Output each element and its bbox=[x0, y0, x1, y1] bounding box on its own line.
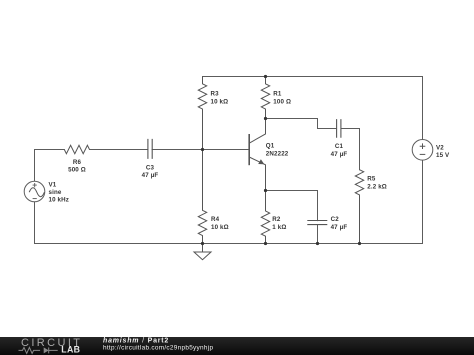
svg-text:2N2222: 2N2222 bbox=[266, 151, 289, 158]
footer text bbox=[103, 337, 213, 351]
svg-text:47 µF: 47 µF bbox=[331, 151, 348, 158]
voltage source V1 bbox=[24, 181, 69, 203]
wire collector node to C1 bbox=[266, 119, 337, 129]
svg-text:R4: R4 bbox=[211, 216, 220, 223]
svg-text:10 kHz: 10 kHz bbox=[49, 197, 70, 204]
svg-text:10 kΩ: 10 kΩ bbox=[211, 224, 229, 231]
node: C2 bottom bbox=[316, 242, 319, 245]
svg-text:V2: V2 bbox=[436, 145, 444, 152]
svg-text:C1: C1 bbox=[335, 143, 344, 150]
node: collector junction bbox=[264, 117, 267, 120]
wire right rail top (V2 top lead) bbox=[422, 77, 424, 140]
node: R1 top on rail bbox=[264, 75, 267, 78]
voltage source V2 bbox=[412, 140, 450, 161]
transistor Q1 bbox=[249, 119, 289, 191]
resistor R3 bbox=[198, 77, 228, 150]
wire input to R6 bbox=[35, 149, 65, 151]
node: ground junction bbox=[201, 242, 204, 245]
wire R6 to C3 bbox=[90, 149, 148, 151]
svg-text:R5: R5 bbox=[367, 176, 376, 183]
wire C3 to Q1 base bbox=[152, 149, 249, 151]
svg-text:2.2 kΩ: 2.2 kΩ bbox=[367, 183, 387, 190]
node: emitter junction bbox=[264, 189, 267, 192]
svg-text:Q1: Q1 bbox=[266, 142, 275, 149]
CircuitLab logo bbox=[19, 337, 83, 355]
wire left rail (V1 top lead) bbox=[34, 150, 36, 182]
svg-text:47 µF: 47 µF bbox=[142, 172, 159, 179]
node: base junction bbox=[201, 148, 204, 151]
svg-text:15 V: 15 V bbox=[436, 152, 450, 159]
node: R2 bottom bbox=[264, 242, 267, 245]
svg-text:V1: V1 bbox=[49, 182, 57, 189]
wire V1 bottom lead bbox=[34, 202, 36, 244]
svg-text:sine: sine bbox=[49, 189, 62, 196]
wire C1 to R5 bbox=[341, 129, 360, 170]
resistor R4 bbox=[198, 150, 228, 244]
capacitor C3 bbox=[142, 139, 159, 179]
wire emitter node to C2 bbox=[266, 191, 318, 221]
footer bar bbox=[0, 337, 474, 355]
svg-text:100 Ω: 100 Ω bbox=[273, 98, 291, 105]
svg-text:R1: R1 bbox=[273, 90, 282, 97]
svg-text:C3: C3 bbox=[146, 165, 155, 172]
wire right rail bottom (V2 bottom lead) bbox=[422, 160, 424, 243]
svg-text:R2: R2 bbox=[272, 216, 281, 223]
svg-text:R3: R3 bbox=[211, 90, 220, 97]
svg-text:500 Ω: 500 Ω bbox=[68, 167, 86, 174]
svg-text:C2: C2 bbox=[331, 216, 340, 223]
svg-text:47 µF: 47 µF bbox=[331, 224, 348, 231]
wire bottom rail bbox=[35, 243, 423, 245]
wire C2 bottom lead bbox=[317, 225, 319, 244]
resistor R1 bbox=[261, 77, 291, 119]
svg-text:R6: R6 bbox=[73, 159, 82, 166]
svg-text:http://circuitlab.com/c29npb5y: http://circuitlab.com/c29npb5yynhjp bbox=[103, 344, 213, 351]
capacitor C1 bbox=[331, 119, 348, 158]
resistor R2 bbox=[261, 191, 286, 244]
resistor R6 bbox=[64, 145, 89, 173]
capacitor C2 bbox=[307, 216, 347, 231]
svg-text:LAB: LAB bbox=[61, 345, 80, 355]
svg-text:10 kΩ: 10 kΩ bbox=[211, 98, 229, 105]
resistor R5 bbox=[355, 170, 387, 244]
svg-text:1 kΩ: 1 kΩ bbox=[272, 224, 286, 231]
wire top rail bbox=[203, 76, 423, 78]
node: R5 bottom bbox=[358, 242, 361, 245]
ground bbox=[194, 244, 211, 260]
